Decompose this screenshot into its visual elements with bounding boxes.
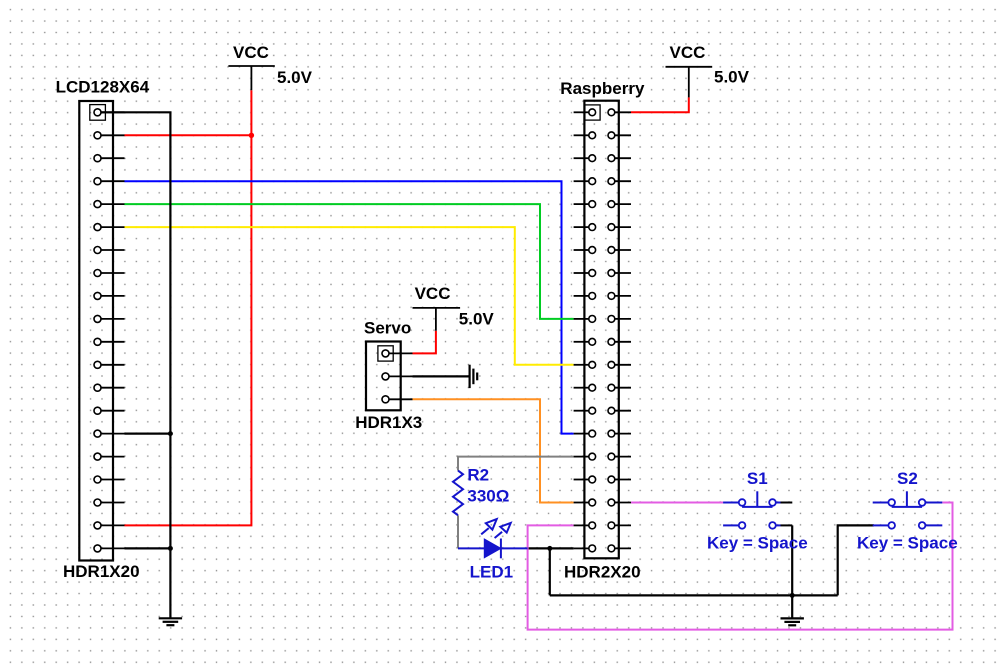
node junction ground rail xyxy=(790,593,795,598)
wire: black bottom rail xyxy=(550,594,838,596)
svg-text:S1: S1 xyxy=(747,469,768,488)
svg-text:5.0V: 5.0V xyxy=(277,68,313,87)
node junction LED net xyxy=(547,546,552,551)
wire: blue LCD pin4 to Raspberry left pin15 xyxy=(125,181,574,433)
svg-text:5.0V: 5.0V xyxy=(459,309,495,328)
svg-text:330Ω: 330Ω xyxy=(467,487,509,506)
svg-text:HDR2X20: HDR2X20 xyxy=(564,563,641,582)
svg-text:HDR1X20: HDR1X20 xyxy=(63,562,140,581)
LED1 xyxy=(458,519,528,582)
wire: pink Raspberry left pin19 loop to S2 xyxy=(528,503,953,630)
wire: black drop from LED junction to bottom rail xyxy=(549,548,551,595)
power VCC1 xyxy=(228,43,312,90)
power VCC3 xyxy=(413,284,495,331)
svg-text:Raspberry: Raspberry xyxy=(560,79,645,98)
ground sideways at servo xyxy=(470,365,478,388)
wire: black S1 lower-right terminal drop xyxy=(791,525,793,595)
wire: black LCD pin1 down to ground rail xyxy=(98,112,171,618)
wire: black LED cathode to Raspberry left pin20 xyxy=(528,547,574,549)
ground under LCD xyxy=(159,618,182,625)
wire: black rail up to S2 lower-left terminal xyxy=(838,525,874,595)
svg-text:R2: R2 xyxy=(467,465,489,484)
svg-text:Key = Space: Key = Space xyxy=(707,534,808,553)
connector J1 LCD HDR1X20 xyxy=(56,77,150,581)
switch S2 xyxy=(857,469,958,553)
node junction LCD pin15 xyxy=(168,431,173,436)
ground below S1 xyxy=(791,595,793,618)
connector J3 Servo HDR1X3 xyxy=(355,318,422,432)
wire: black LCD pin20 to rail xyxy=(125,547,171,549)
wire: gray R2 bottom to LED anode corner xyxy=(457,515,459,548)
wire: black unconnected tails at S1 right terminals xyxy=(781,502,793,504)
svg-text:5.0V: 5.0V xyxy=(714,67,750,86)
svg-text:Servo: Servo xyxy=(364,318,411,337)
svg-text:VCC: VCC xyxy=(233,43,269,62)
svg-text:Key = Space: Key = Space xyxy=(857,534,958,553)
wire: pink Raspberry right pin18 to S1 xyxy=(631,502,723,504)
svg-text:LCD128X64: LCD128X64 xyxy=(56,77,150,96)
wire: black servo pin2 to earth xyxy=(413,375,470,377)
emission arrow 2 xyxy=(495,523,511,538)
pin 1 marker Raspberry xyxy=(585,105,600,120)
connector J2 Raspberry HDR2X20 xyxy=(560,79,645,582)
svg-text:LED1: LED1 xyxy=(470,563,513,582)
svg-text:VCC: VCC xyxy=(670,43,706,62)
node junction red on VCC rail xyxy=(249,133,254,138)
wire: green LCD pin5 to Raspberry left pin10 xyxy=(125,204,574,319)
wire: black LCD pin15 to rail xyxy=(125,433,171,435)
node junction LCD pin20 xyxy=(168,546,173,551)
power VCC2 xyxy=(666,43,750,98)
wire: red VCC2 to Raspberry right pin1 xyxy=(631,97,689,112)
wire: orange Servo pin3 to Raspberry left pin18 xyxy=(413,399,574,502)
pin 1 marker Servo xyxy=(378,346,393,361)
svg-text:HDR1X3: HDR1X3 xyxy=(355,413,422,432)
emission arrow 1 xyxy=(481,519,497,534)
svg-text:S2: S2 xyxy=(897,469,918,488)
wire: red VCC3 to Servo pin1 xyxy=(413,331,436,354)
wire: red LCD pin2 to rail xyxy=(125,134,252,136)
switch S1 xyxy=(707,469,808,553)
wire: red vertical VCC rail to LCD pin19 xyxy=(125,90,252,525)
pin 1 marker LCD xyxy=(90,105,106,121)
wire: gray Raspberry left pin16 to R2 top xyxy=(458,457,574,471)
wire: yellow LCD pin6 to Raspberry left pin12 xyxy=(125,227,574,365)
resistor R2 330ohm xyxy=(453,465,509,515)
svg-text:VCC: VCC xyxy=(415,284,451,303)
